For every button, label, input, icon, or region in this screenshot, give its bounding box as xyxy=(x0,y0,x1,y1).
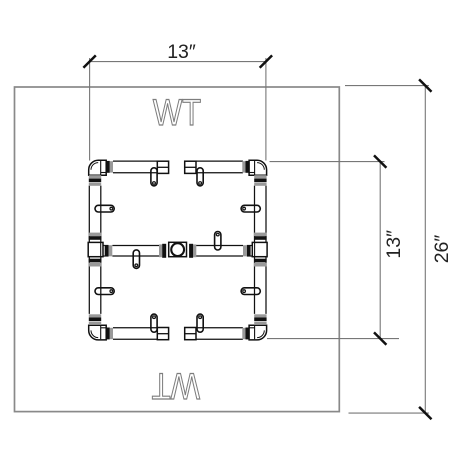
dimension 26in right: tick top xyxy=(419,79,431,91)
center cross fitting xyxy=(159,242,196,257)
tee left rail xyxy=(88,233,112,267)
corner block bottom-right of gap xyxy=(185,328,196,340)
stub pipe top-right of gap xyxy=(197,168,203,186)
dimension 13in right: tick top xyxy=(374,155,386,167)
right rail pipe edges xyxy=(255,186,267,314)
dimension 13in top: tick left xyxy=(83,55,95,67)
dimension 26in right: tick bottom xyxy=(419,407,431,419)
svg-text:13″: 13″ xyxy=(167,41,196,63)
dimension 13in top: extension lines xyxy=(89,58,91,161)
outer square table top xyxy=(15,87,340,412)
svg-text:26″: 26″ xyxy=(431,235,453,264)
top rail pipe edges xyxy=(113,161,243,173)
elbow top-left xyxy=(89,160,113,186)
elbow bottom-left xyxy=(89,314,113,340)
center pipe edges xyxy=(112,246,243,256)
stub pipe right rail lower xyxy=(241,288,260,295)
dimension 13in right: extension lines xyxy=(270,161,385,163)
dimension 13in right: tick bottom xyxy=(374,332,386,344)
stub pipe top-left of gap xyxy=(151,168,157,186)
elbow bottom-right xyxy=(242,314,266,340)
stub pipe center up xyxy=(215,232,221,251)
tee right rail xyxy=(243,233,267,267)
stub pipe left rail upper xyxy=(95,205,114,212)
stub pipe left rail lower xyxy=(95,288,114,295)
stub pipe right rail upper xyxy=(241,205,260,212)
elbow top-right xyxy=(242,160,266,186)
dimension 26in right: extension lines xyxy=(345,85,429,87)
svg-text:WT: WT xyxy=(153,93,201,134)
stub pipe center down xyxy=(133,250,139,269)
bottom rail pipe edges xyxy=(113,328,243,340)
dimension 13in top: dimension line xyxy=(90,61,266,63)
dimension 13in right: dimension line xyxy=(379,162,381,339)
corner block bottom-left of gap xyxy=(157,328,168,340)
corner block top-right of gap xyxy=(185,161,196,173)
label WT top xyxy=(153,93,201,134)
dimension 13in top: tick right xyxy=(260,55,272,67)
svg-text:WT: WT xyxy=(152,365,200,406)
left rail pipe edges xyxy=(89,186,101,314)
label WT bottom (rotated 180) xyxy=(152,365,200,406)
stub pipe bottom-right of gap xyxy=(197,314,203,332)
dimension 26in right: dimension line xyxy=(424,86,426,414)
stub pipe bottom-left of gap xyxy=(151,314,157,332)
svg-text:13″: 13″ xyxy=(383,230,405,259)
corner block top-left of gap xyxy=(157,161,168,173)
